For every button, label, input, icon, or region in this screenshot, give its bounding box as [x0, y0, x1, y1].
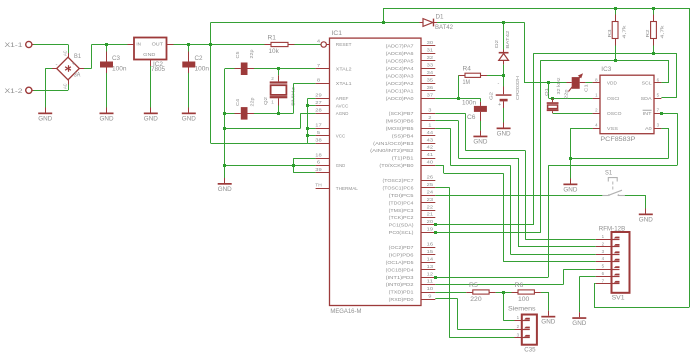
svg-text:42: 42: [427, 145, 434, 150]
svg-text:(TXD)PD1: (TXD)PD1: [389, 290, 414, 295]
ground: [645, 209, 647, 214]
svg-text:32 kHz: 32 kHz: [556, 77, 561, 95]
node raw/C3: [105, 43, 108, 46]
svg-text:IC1: IC1: [332, 31, 343, 37]
pin 29 AREF: [316, 98, 330, 100]
svg-text:26: 26: [427, 175, 434, 180]
svg-text:38: 38: [315, 137, 322, 142]
pin TH THERMAL: [316, 188, 330, 190]
svg-text:(AIN1/OC0)PB3: (AIN1/OC0)PB3: [373, 141, 414, 146]
pin 38: [316, 143, 330, 145]
svg-text:12: 12: [427, 271, 434, 276]
wire R1 to RESET: [295, 44, 321, 46]
wire VCC feed from 7805: [211, 143, 308, 145]
svg-text:X1-1: X1-1: [5, 42, 24, 49]
pin 26 (TOSC2)PC7: [421, 180, 435, 182]
svg-text:1: 1: [271, 99, 274, 104]
svg-text:OSCI: OSCI: [607, 96, 620, 101]
svg-text:+: +: [498, 102, 501, 108]
svg-text:C35: C35: [524, 347, 536, 353]
wire IC2 GND to ground: [150, 66, 152, 108]
svg-text:PC0(SCL): PC0(SCL): [389, 230, 414, 235]
svg-text:Q1: Q1: [544, 87, 549, 96]
ground: [188, 108, 190, 113]
svg-text:41: 41: [427, 152, 434, 157]
wire PB5 MOSI to SV1 pin3: [435, 128, 450, 130]
svg-text:(AIN0/INT2)PB2: (AIN0/INT2)PB2: [370, 148, 414, 153]
pin 21 (TCK)PC2: [421, 217, 435, 219]
svg-text:25: 25: [427, 182, 434, 187]
svg-text:X1-2: X1-2: [5, 88, 24, 95]
+5V rail from 7805 OUT: [174, 44, 265, 46]
svg-text:100: 100: [518, 297, 530, 303]
svg-text:GND: GND: [182, 115, 196, 122]
pin 31 (ADC6)PA6: [421, 53, 435, 55]
pin 25 (TOSC1)PC6: [421, 187, 435, 189]
svg-text:(OC1B)PD4: (OC1B)PD4: [386, 267, 414, 272]
crystal Q2 8MHz: [278, 69, 280, 76]
svg-text:C3: C3: [112, 56, 121, 62]
svg-text:D2: D2: [494, 39, 499, 48]
crystal Q1 32kHz: [552, 98, 554, 102]
wire AREF: [308, 98, 316, 100]
wire X1-1 to bridge AC1: [34, 44, 69, 46]
bridge rectifier B1 3A: [68, 53, 70, 57]
pin 5 VCC: [316, 135, 330, 137]
wire VCC top run to D1: [211, 22, 420, 24]
resistor R5 220: [466, 292, 473, 294]
gnd rail left of mcu: [224, 69, 226, 178]
pin 32 (ADC5)PA5: [421, 60, 435, 62]
svg-text:34: 34: [427, 70, 434, 75]
svg-text:VCC: VCC: [336, 133, 346, 138]
svg-text:10k: 10k: [269, 49, 280, 55]
svg-text:43: 43: [427, 137, 434, 142]
wire node to C35 pin1: [503, 292, 505, 321]
svg-text:(ADC3)PA3: (ADC3)PA3: [386, 73, 414, 78]
svg-text:(TOSC1)PC6: (TOSC1)PC6: [383, 185, 414, 190]
svg-text:(OC1A)PD5: (OC1A)PD5: [386, 260, 414, 265]
svg-text:(T0/XCK)PB0: (T0/XCK)PB0: [379, 163, 414, 168]
svg-text:(RXD)PD0: (RXD)PD0: [389, 297, 414, 302]
pin 36 (ADC1)PA1: [421, 90, 435, 92]
svg-text:A0: A0: [645, 126, 652, 131]
svg-text:OSCO: OSCO: [607, 111, 622, 116]
wire VBAT to RTC: [504, 22, 525, 24]
pin 4 VSS: [593, 128, 600, 130]
svg-text:18: 18: [315, 152, 322, 157]
svg-text:SDA: SDA: [641, 96, 653, 101]
svg-text:100n: 100n: [462, 100, 476, 106]
pin 3: [596, 254, 612, 256]
svg-text:C4: C4: [235, 98, 240, 106]
svg-text:BAT42: BAT42: [505, 30, 510, 49]
svg-text:40: 40: [427, 160, 434, 165]
pin 12 (INT1)PD3: [421, 277, 435, 279]
wire PC5 to S1: [435, 195, 602, 197]
svg-text:33: 33: [427, 62, 434, 67]
svg-text:+: +: [72, 62, 75, 68]
ground: [45, 108, 47, 113]
wire bridge DC- to GND: [45, 68, 52, 70]
svg-text:4,7k: 4,7k: [660, 24, 665, 38]
pin 7 XTAL2: [316, 68, 330, 70]
svg-text:PCF8583P: PCF8583P: [600, 137, 635, 143]
wire R6 to gnd: [541, 292, 548, 294]
svg-text:VSS: VSS: [607, 126, 618, 131]
svg-text:G2: G2: [489, 91, 494, 100]
svg-text:GND: GND: [473, 138, 487, 145]
capacitor C6 100n: [480, 98, 482, 102]
svg-text:INT: INT: [643, 111, 652, 116]
wire SV1 pin6 to gnd: [579, 276, 596, 278]
svg-text:AC: AC: [62, 51, 67, 57]
svg-text:17: 17: [315, 122, 322, 127]
wire AVCC: [308, 105, 316, 107]
pin 4: [596, 261, 612, 263]
wire PB6 MISO to SV1 pin2: [435, 120, 458, 122]
ground: [150, 108, 152, 113]
wire XTAL1 bracket: [293, 83, 295, 113]
diode D1 BAT42: [420, 22, 424, 24]
pin 27 AVCC: [316, 105, 330, 107]
ground: [579, 312, 581, 317]
wire to OSCI: [548, 83, 550, 98]
svg-text:8MHz: 8MHz: [290, 86, 295, 106]
svg-text:3A: 3A: [74, 73, 81, 79]
wire GND pins tie: [293, 158, 315, 160]
svg-text:44: 44: [427, 130, 434, 135]
top VBAT rail: [384, 8, 690, 10]
svg-text:14: 14: [427, 256, 434, 261]
svg-text:(SS)PB4: (SS)PB4: [392, 133, 414, 138]
pin 30 (ADC7)PA7: [421, 45, 435, 47]
svg-text:GND: GND: [563, 186, 577, 193]
svg-text:1M: 1M: [463, 80, 471, 86]
pin 24 (TDI)PC5: [421, 195, 435, 197]
svg-text:PC1(SDA): PC1(SDA): [389, 223, 414, 228]
svg-text:GND: GND: [100, 115, 114, 122]
ground: [224, 178, 226, 183]
svg-text:22: 22: [427, 204, 434, 209]
wire bridge DC+ up to raw rail: [84, 68, 92, 70]
svg-text:(INT1)PD3: (INT1)PD3: [386, 275, 414, 280]
svg-text:IC3: IC3: [601, 67, 612, 73]
svg-text:R1: R1: [268, 35, 277, 41]
riser to top rail: [383, 8, 385, 23]
svg-text:S1: S1: [605, 171, 613, 177]
svg-text:GND: GND: [639, 216, 653, 223]
svg-text:VDD: VDD: [607, 81, 618, 86]
svg-text:(OC2)PD7: (OC2)PD7: [389, 245, 414, 250]
svg-text:C1: C1: [584, 84, 589, 92]
resistor R2 4,7k: [653, 8, 655, 15]
pin 1: [515, 320, 522, 322]
pin 11 (INT0)PD2: [421, 284, 435, 286]
svg-text:R2: R2: [645, 29, 650, 38]
battery G2 CR2032H: [503, 87, 505, 95]
svg-text:(TOSC2)PC7: (TOSC2)PC7: [383, 178, 414, 183]
svg-text:24: 24: [427, 189, 434, 194]
svg-text:SV1: SV1: [612, 295, 626, 301]
svg-text:(ADC7)PA7: (ADC7)PA7: [386, 43, 414, 48]
pin 34 (ADC3)PA3: [421, 75, 435, 77]
svg-text:(MISO)PB6: (MISO)PB6: [386, 118, 414, 123]
svg-text:THERMAL: THERMAL: [336, 186, 358, 191]
svg-text:GND: GND: [497, 130, 511, 137]
pin 8 XTAL1: [316, 83, 330, 85]
svg-text:22p: 22p: [250, 97, 255, 107]
svg-text:AC: AC: [62, 84, 67, 90]
svg-text:39: 39: [315, 167, 322, 172]
svg-text:16: 16: [427, 242, 434, 247]
pin 2: [596, 246, 612, 248]
svg-text:XTAL2: XTAL2: [336, 66, 352, 71]
svg-text:C2: C2: [195, 56, 204, 62]
pin 3 A0: [654, 128, 661, 130]
svg-text:(TCK)PC2: (TCK)PC2: [389, 215, 414, 220]
capacitor C5 22p: [235, 68, 241, 70]
wire PB7 SCK to SV1 pin1: [435, 113, 465, 115]
svg-text:28: 28: [315, 108, 322, 113]
voltage regulator IC2 7805: [128, 44, 135, 46]
svg-text:4,7k: 4,7k: [621, 24, 626, 38]
wire XTAL2 row: [225, 68, 235, 70]
svg-text:(T1)PB1: (T1)PB1: [392, 156, 414, 161]
pin 20 PC1(SDA): [421, 224, 435, 226]
ground: [548, 311, 550, 316]
svg-text:GND: GND: [218, 186, 232, 193]
pin 22 (TMS)PC3: [421, 210, 435, 212]
wire PD2 INT0 to SV1 pin5: [435, 284, 563, 286]
pin 44 (SS)PB4: [421, 135, 435, 137]
capacitor C2 100n: [188, 45, 190, 52]
svg-text:GND: GND: [572, 320, 586, 327]
svg-text:RESET: RESET: [336, 42, 352, 47]
pin 1 OSCI: [593, 98, 600, 100]
pin 17: [316, 128, 330, 130]
pin 18: [316, 158, 330, 160]
wire VSS to gnd: [570, 128, 592, 130]
svg-text:(ADC6)PA6: (ADC6)PA6: [386, 51, 414, 56]
svg-text:SCL: SCL: [642, 81, 652, 86]
pin 42 (AIN0/INT2)PB2: [421, 150, 435, 152]
svg-text:2: 2: [271, 76, 274, 81]
capacitor C3 100n: [106, 45, 108, 52]
svg-text:13: 13: [427, 264, 434, 269]
pin 35 (ADC2)PA2: [421, 83, 435, 85]
svg-text:BAT42: BAT42: [435, 25, 454, 31]
svg-text:(ADC4)PA4: (ADC4)PA4: [386, 66, 414, 71]
resistor R4 1M: [459, 75, 466, 77]
svg-text:22p: 22p: [564, 89, 569, 99]
svg-text:30: 30: [427, 40, 434, 45]
svg-text:36: 36: [427, 85, 434, 90]
pin 33 (ADC4)PA4: [421, 68, 435, 70]
pin 28 AGND: [316, 113, 330, 115]
svg-text:GND: GND: [541, 319, 555, 326]
pin 5: [596, 269, 612, 271]
pin 23 (TDO)PC4: [421, 202, 435, 204]
svg-text:(ADC1)PA1: (ADC1)PA1: [386, 89, 414, 94]
svg-text:R5: R5: [469, 283, 479, 289]
svg-text:37: 37: [427, 93, 434, 98]
wire PD1 TXD to R5: [435, 292, 466, 294]
svg-text:10: 10: [427, 286, 434, 291]
svg-text:31: 31: [427, 47, 434, 52]
svg-text:(ADC0)PA0: (ADC0)PA0: [386, 96, 414, 101]
svg-text:GND: GND: [143, 52, 156, 57]
svg-text:MEGA16-M: MEGA16-M: [330, 309, 361, 315]
svg-text:Q2: Q2: [263, 96, 268, 105]
pin 7 INT: [654, 113, 661, 115]
svg-text:19: 19: [427, 227, 434, 232]
wire PC6 to C35 pin3: [435, 187, 450, 189]
svg-text:29: 29: [315, 93, 322, 98]
svg-text:35: 35: [427, 77, 434, 82]
svg-text:OUT: OUT: [152, 41, 164, 46]
ground: [570, 179, 572, 184]
pin 2 OSCO: [593, 113, 600, 115]
wire C4 row: [225, 113, 235, 115]
svg-text:Siemens: Siemens: [508, 307, 536, 313]
svg-text:27: 27: [315, 100, 322, 105]
diode D2 BAT42: [503, 23, 505, 50]
svg-text:C6: C6: [467, 115, 476, 121]
pin 40 (T0/XCK)PB0: [421, 165, 435, 167]
resistor R3 4,7k: [615, 8, 617, 15]
svg-text:GND: GND: [38, 115, 52, 122]
pin 5 SDA: [654, 98, 661, 100]
pin 7: [596, 283, 612, 285]
SDA net: [533, 53, 676, 55]
svg-text:22p: 22p: [249, 49, 254, 59]
svg-text:100n: 100n: [112, 67, 127, 73]
svg-text:7805: 7805: [151, 67, 166, 73]
pin 8 VDD: [593, 82, 600, 84]
pin 14 (OC1A)PD5: [421, 262, 435, 264]
svg-text:100n: 100n: [195, 67, 210, 73]
svg-text:(INT0)PD2: (INT0)PD2: [386, 282, 414, 287]
svg-text:R6: R6: [515, 283, 525, 289]
svg-text:(MOSI)PB5: (MOSI)PB5: [386, 126, 414, 131]
svg-text:CR2032H: CR2032H: [515, 76, 520, 100]
wire PB0 to SV1 pin4: [435, 165, 444, 167]
pin 3 (SCK)PB7: [421, 113, 435, 115]
pin 15 (ICP)PD6: [421, 254, 435, 256]
pin 43 (AIN1/OC0)PB3: [421, 143, 435, 145]
svg-text:R3: R3: [607, 29, 612, 38]
svg-text:AVCC: AVCC: [336, 104, 349, 109]
svg-text:15: 15: [427, 249, 434, 254]
svg-text:(TMS)PC3: (TMS)PC3: [389, 208, 414, 213]
wire AGND: [301, 113, 316, 115]
rtc IC3 PCF8583P: [600, 75, 654, 134]
wire X1-2 to bridge AC2: [34, 90, 69, 92]
pin 1: [596, 239, 612, 241]
resistor R6 100: [512, 292, 519, 294]
ground: [503, 123, 505, 128]
svg-text:21: 21: [427, 212, 434, 217]
resistor R1 10k: [265, 44, 272, 46]
wire S1 to gnd: [625, 195, 646, 197]
ground: [106, 108, 108, 113]
AVCC rail: [307, 98, 309, 143]
svg-text:20: 20: [427, 219, 434, 224]
wire A0 to gnd: [661, 128, 668, 130]
capacitor C4 22p: [235, 113, 241, 115]
svg-text:(SCK)PB7: (SCK)PB7: [389, 111, 414, 116]
wire VCC pins: [308, 128, 316, 130]
svg-text:23: 23: [427, 197, 434, 202]
pin 6 GND: [316, 165, 330, 167]
svg-text:AREF: AREF: [336, 96, 349, 101]
pin 10 (TXD)PD1: [421, 292, 435, 294]
wire PA0 net: [435, 98, 480, 100]
svg-text:-: -: [56, 63, 58, 69]
svg-text:B1: B1: [74, 54, 82, 60]
svg-text:IN: IN: [136, 41, 141, 46]
svg-text:(ADC5)PA5: (ADC5)PA5: [386, 58, 414, 63]
svg-text:32: 32: [427, 55, 434, 60]
pin 3: [515, 337, 522, 339]
SCL net: [541, 60, 669, 62]
svg-text:TH: TH: [315, 183, 321, 188]
svg-text:11: 11: [427, 279, 434, 284]
svg-text:-: -: [498, 81, 500, 87]
pin 9 (RXD)PD0: [421, 299, 435, 301]
pin 41 (T1)PB1: [421, 158, 435, 160]
pin 13 (OC1B)PD4: [421, 269, 435, 271]
pin 1 (MOSI)PB5: [421, 128, 435, 130]
svg-text:GND: GND: [336, 163, 346, 168]
VCC rail riser: [210, 23, 212, 144]
pin 6 SCL: [654, 82, 661, 84]
mcu IC1 MEGA16-M: [330, 38, 422, 305]
svg-text:(TDO)PC4: (TDO)PC4: [389, 200, 414, 205]
svg-text:220: 220: [470, 297, 482, 303]
svg-text:XTAL1: XTAL1: [336, 81, 352, 86]
ground: [480, 131, 482, 136]
pin 37 (ADC0)PA0: [421, 98, 435, 100]
svg-text:AGND: AGND: [336, 111, 349, 116]
pin 16 (OC2)PD7: [421, 247, 435, 249]
svg-text:(ICP)PD6: (ICP)PD6: [389, 252, 414, 257]
svg-text:(ADC2)PA2: (ADC2)PA2: [386, 81, 414, 86]
svg-text:D1: D1: [436, 14, 445, 20]
svg-text:C5: C5: [235, 51, 240, 59]
reset circle: [321, 42, 326, 47]
pin 19 PC0(SCL): [421, 232, 435, 234]
pin 2 (MISO)PB6: [421, 120, 435, 122]
pin 39: [316, 172, 330, 174]
trimmer cap C1 22p: [567, 82, 572, 84]
pin 6: [596, 276, 612, 278]
svg-text:R4: R4: [463, 67, 472, 73]
wire PD0 RXD to C35 pin2: [435, 298, 457, 300]
svg-text:(TDI)PC5: (TDI)PC5: [389, 193, 414, 198]
pin 2: [515, 329, 522, 331]
wire INT net to PD3: [660, 112, 663, 115]
svg-text:GND: GND: [144, 115, 158, 122]
